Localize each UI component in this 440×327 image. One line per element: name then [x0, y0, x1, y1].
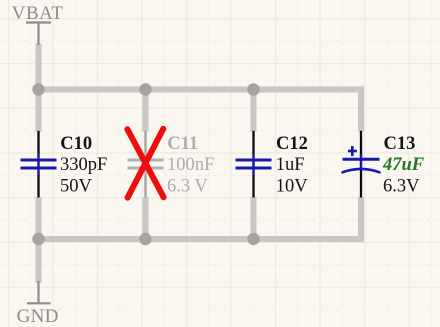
capacitor C10 — [21, 131, 57, 198]
wire C10 top drop — [36, 90, 42, 132]
svg-text:VBAT: VBAT — [12, 3, 64, 24]
svg-text:6.3 V: 6.3 V — [167, 177, 208, 197]
capacitor C11 (unpopulated, grey) — [128, 131, 164, 198]
wire C10 bottom drop — [36, 197, 42, 239]
wire C12 top drop — [251, 90, 257, 132]
svg-text:C11: C11 — [167, 134, 198, 154]
svg-text:GND: GND — [17, 306, 59, 327]
svg-text:10V: 10V — [276, 177, 309, 197]
svg-text:6.3V: 6.3V — [383, 177, 420, 197]
svg-text:1uF: 1uF — [276, 155, 305, 175]
junction bottom bus / C10 column — [32, 233, 44, 245]
svg-text:C12: C12 — [276, 134, 308, 154]
capacitor C12 — [236, 131, 272, 198]
wire bottom bus to GND — [36, 239, 42, 283]
svg-text:C13: C13 — [384, 134, 416, 154]
wire C12 bottom drop — [251, 197, 257, 239]
wire VBAT stem to top bus — [36, 44, 42, 90]
svg-text:330pF: 330pF — [60, 155, 107, 175]
power symbol VBAT — [26, 23, 51, 46]
wire C11 top drop — [143, 90, 149, 132]
wire top bus with corner to C13 — [39, 90, 362, 132]
wire bottom bus with corner to C13 — [39, 197, 362, 239]
svg-text:C10: C10 — [60, 134, 92, 154]
capacitor C13 (polarized) — [343, 131, 380, 198]
svg-text:100nF: 100nF — [167, 155, 214, 175]
wire C11 bottom drop — [143, 197, 149, 239]
junction top bus / C10 column — [32, 83, 44, 95]
junction bottom bus / C11 — [139, 233, 151, 245]
junction top bus / C12 — [247, 83, 259, 95]
DNP cross-out X over C11 — [127, 129, 163, 198]
svg-text:50V: 50V — [60, 177, 93, 197]
junction bottom bus / C12 — [247, 233, 259, 245]
ground symbol GND — [27, 281, 51, 303]
junction top bus / C11 — [139, 83, 151, 95]
svg-text:47uF: 47uF — [382, 155, 425, 175]
